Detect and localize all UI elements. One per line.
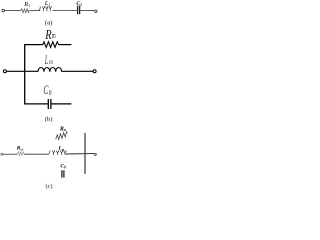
terminal right (c) (94, 153, 96, 155)
wire (3, 153, 18, 155)
svg-text:R: R (44, 28, 51, 43)
wire (5, 10, 21, 12)
svg-text:L: L (44, 52, 48, 67)
svg-text:L1: L1 (44, 0, 51, 7)
vertical wire (c) (84, 133, 86, 174)
capacitor C0 plates (47, 99, 49, 109)
svg-text:Ra: Ra (59, 126, 66, 132)
wire top branch right (59, 44, 72, 46)
wire (29, 10, 40, 12)
wire mid branch right (62, 70, 93, 72)
svg-text:0: 0 (49, 89, 52, 97)
wire bottom branch right (51, 103, 71, 105)
node bus left (24, 44, 26, 104)
capacitor C1 (a) (77, 6, 79, 15)
svg-text:(c): (c) (45, 183, 52, 190)
inductor L (c) loops (49, 150, 50, 154)
svg-text:(a): (a) (45, 19, 53, 26)
terminal left (c) (1, 153, 3, 155)
svg-text:R1: R1 (23, 1, 30, 8)
svg-text:m: m (49, 58, 53, 66)
svg-text:Lm: Lm (58, 146, 65, 152)
inductor Lm humps (38, 68, 44, 72)
wire (53, 10, 78, 12)
svg-text:C1: C1 (76, 1, 82, 7)
wire to right terminal (66, 153, 94, 155)
wire (80, 10, 94, 12)
svg-text:(b): (b) (45, 116, 53, 123)
resistor R1 (a) (20, 9, 29, 13)
terminal right (b) (93, 70, 96, 73)
resistor Rs (c) small (18, 152, 24, 156)
terminal left (b) (3, 70, 6, 73)
svg-text:m: m (52, 31, 56, 40)
wire to bus (7, 70, 39, 72)
svg-text:C0: C0 (60, 164, 66, 170)
wire bottom branch left (24, 103, 48, 105)
svg-text:C: C (43, 82, 48, 97)
resistor Rm (43, 42, 59, 48)
wire top branch left (24, 44, 43, 46)
resistor Rp (c) diagonal (56, 132, 68, 140)
terminal right (a) (95, 10, 97, 12)
capacitor C (c) plates (61, 170, 63, 177)
terminal left (a) (2, 9, 5, 12)
svg-text:Rs1: Rs1 (16, 146, 24, 152)
wire (24, 153, 48, 155)
inductor L1 (a) loops (39, 6, 40, 10)
